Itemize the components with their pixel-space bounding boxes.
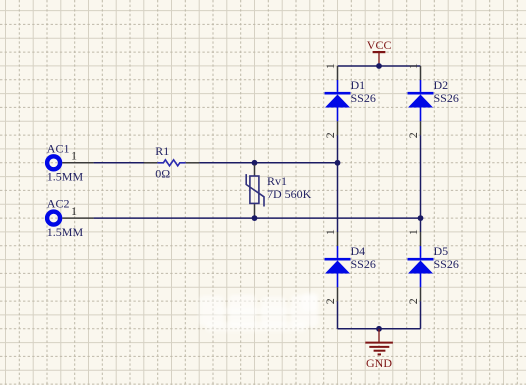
diode D5 pin number 1 (406, 229, 420, 235)
svg-text:1: 1 (406, 63, 420, 69)
connector AC1 designator label (47, 141, 70, 155)
varistor RV1 body (246, 174, 264, 206)
diode D4 pin 1 stub (337, 232, 339, 258)
diode D5 pin 1 stub (420, 232, 422, 258)
junction dot GND stem (376, 326, 382, 332)
diode D1 cathode bar (325, 92, 351, 95)
junction dot VCC stem (376, 63, 382, 69)
GND net label (366, 356, 392, 370)
svg-text:2: 2 (406, 132, 420, 138)
diode D1 pin number 1 (323, 63, 337, 69)
svg-text:2: 2 (323, 298, 337, 304)
junction dot middle net at left branch (335, 160, 341, 166)
junction dot AC2 net at right branch (418, 215, 424, 221)
wire R1 to bridge left branch (199, 162, 337, 164)
diode D2 triangle (408, 95, 433, 108)
svg-text:1: 1 (323, 63, 337, 69)
svg-text:D1: D1 (351, 78, 366, 92)
power port VCC (373, 52, 386, 66)
wire top rail VCC net (338, 65, 421, 67)
svg-text:2: 2 (323, 132, 337, 138)
wire bottom rail GND net (338, 328, 421, 330)
svg-text:1: 1 (323, 229, 337, 235)
svg-text:SS26: SS26 (434, 91, 459, 105)
wire AC2 to right branch (94, 217, 421, 219)
svg-text:D4: D4 (351, 244, 366, 258)
diode D2 value label SS26 (434, 91, 459, 105)
wire left branch bottom to rail (337, 301, 339, 329)
connector AC2 designator label (47, 197, 70, 211)
diode D1 triangle (325, 95, 350, 108)
connector AC1 value label 1.5MM (47, 170, 84, 184)
diode D4 designator label (351, 244, 366, 258)
varistor RV1 pin stubs (254, 165, 256, 217)
junction dot at RV1 bottom (252, 215, 258, 221)
wire AC1 to R1 (94, 162, 145, 164)
svg-text:1: 1 (71, 204, 77, 218)
svg-text:VCC: VCC (367, 38, 392, 52)
diode D4 pin number 2 (323, 298, 337, 304)
svg-text:AC2: AC2 (47, 197, 70, 211)
svg-text:2: 2 (406, 298, 420, 304)
wire right branch bottom to rail (420, 301, 422, 329)
power port GND (365, 329, 393, 355)
svg-text:GND: GND (366, 356, 392, 370)
diode D4 pin 2 stub (337, 274, 339, 302)
wire left branch vertical D1 to D4 (337, 135, 339, 232)
diode D1 pin number 2 (323, 132, 337, 138)
svg-text:R1: R1 (155, 144, 169, 158)
connector AC1 pin stub (62, 162, 93, 164)
diode D4 value label SS26 (351, 257, 376, 271)
svg-text:SS26: SS26 (351, 257, 376, 271)
watermark (faint white overlay) (199, 293, 318, 332)
svg-text:D2: D2 (434, 78, 449, 92)
diode D2 pin number 1 (406, 63, 420, 69)
svg-text:7D 560K: 7D 560K (267, 187, 312, 201)
diode D5 pin number 2 (406, 298, 420, 304)
varistor RV1 designator label (267, 174, 287, 188)
connector AC2 value label 1.5MM (47, 225, 84, 239)
svg-text:1.5MM: 1.5MM (47, 170, 84, 184)
connector pad AC2 (47, 212, 60, 225)
resistor R1 value label 0ohm (155, 167, 170, 181)
diode D1 designator label (351, 78, 366, 92)
diode D1 pin 1 stub (337, 66, 339, 92)
resistor R1 designator label (155, 144, 169, 158)
diode D2 pin number 2 (406, 132, 420, 138)
diode D5 value label SS26 (434, 257, 459, 271)
svg-text:SS26: SS26 (351, 91, 376, 105)
diode D4 cathode bar (325, 258, 351, 261)
svg-text:1: 1 (406, 229, 420, 235)
svg-text:SS26: SS26 (434, 257, 459, 271)
diode D2 cathode bar (408, 92, 434, 95)
diode D2 pin 1 stub (420, 66, 422, 92)
diode D4 pin number 1 (323, 229, 337, 235)
junction dot at RV1 top (252, 160, 258, 166)
wire right branch vertical D2 to D5 (420, 135, 422, 232)
connector AC2 pin number 1 (71, 204, 77, 218)
varistor RV1 value label 7D 560K (267, 187, 312, 201)
connector AC2 pin stub (62, 217, 93, 219)
connector pad AC1 (47, 156, 60, 169)
svg-text:0Ω: 0Ω (155, 167, 170, 181)
resistor R1 (144, 160, 199, 166)
svg-text:1.5MM: 1.5MM (47, 225, 84, 239)
diode D4 triangle (325, 261, 350, 274)
diode D1 pin 2 stub (337, 108, 339, 136)
diode D5 cathode bar (408, 258, 434, 261)
diode D2 designator label (434, 78, 449, 92)
connector AC1 pin number 1 (71, 149, 77, 163)
diode D1 value label SS26 (351, 91, 376, 105)
diode D5 pin 2 stub (420, 274, 422, 302)
diode D2 pin 2 stub (420, 108, 422, 136)
svg-text:D5: D5 (434, 244, 449, 258)
VCC net label (367, 38, 392, 52)
svg-text:1: 1 (71, 149, 77, 163)
diode D5 designator label (434, 244, 449, 258)
svg-text:AC1: AC1 (47, 141, 70, 155)
svg-text:Rv1: Rv1 (267, 174, 287, 188)
diode D5 triangle (408, 261, 433, 274)
